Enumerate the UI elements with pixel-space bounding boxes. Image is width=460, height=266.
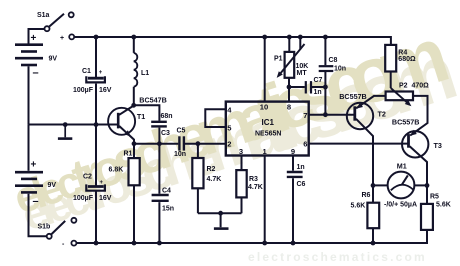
svg-text:-/0/+ 50µA: -/0/+ 50µA (384, 202, 417, 209)
svg-text:68n: 68n (161, 113, 173, 120)
junction C7 C8 (323, 85, 328, 90)
svg-text:T3: T3 (434, 141, 442, 150)
svg-text:electroschematics.com: electroschematics.com (248, 250, 427, 264)
svg-text:P1: P1 (274, 55, 283, 62)
switch S1b (47, 218, 77, 246)
meter M1 (388, 172, 415, 199)
svg-text:C1: C1 (82, 68, 91, 75)
wire collector to C3 (134, 105, 160, 120)
junction C6 bottom rail (291, 241, 296, 246)
capacitor C3 (151, 122, 167, 127)
svg-text:10K: 10K (296, 63, 309, 70)
junction R2 R3 ground (218, 211, 223, 216)
svg-text:MT: MT (297, 70, 308, 77)
ground under R2 R3 (214, 227, 229, 230)
wire pin10 (264, 37, 266, 102)
potentiometer P2 (386, 88, 413, 106)
wire pin6 to T3 base (309, 143, 408, 145)
svg-text:C3: C3 (161, 130, 170, 137)
junction P1 pin8 C7 (287, 85, 292, 90)
resistor R5 (421, 204, 433, 230)
svg-text:C5: C5 (177, 128, 186, 135)
junction C1 C2 mid rail (94, 122, 99, 127)
bottom rail (77, 230, 428, 243)
junction pin7 T2 base (323, 112, 328, 117)
svg-text:9V: 9V (48, 182, 57, 189)
svg-text:R2: R2 (207, 166, 216, 173)
resistor R6 (367, 203, 379, 229)
svg-text:BC557B: BC557B (392, 118, 420, 127)
switch S1a (45, 12, 75, 39)
wire R2-R3 tie bar (198, 213, 242, 227)
wire emitter row (134, 143, 226, 145)
svg-text:S1a: S1a (37, 12, 50, 19)
svg-text:C2: C2 (83, 174, 92, 181)
svg-text:100µF: 100µF (73, 195, 94, 202)
mid rail (battery junction to T1 base) (29, 124, 118, 126)
wire T1 collector diagonal (119, 106, 134, 115)
wire pin7 to T2 base (309, 114, 354, 116)
junction C2 bottom rail (94, 241, 99, 246)
svg-text:L1: L1 (141, 70, 149, 77)
battery B1 top lead (29, 29, 45, 44)
wire R3 leads (241, 156, 243, 214)
wire R4 bottom to P2 wiper (390, 72, 392, 89)
svg-text:1n: 1n (297, 164, 305, 171)
wire pin1 (264, 156, 266, 244)
svg-text:6.8K: 6.8K (109, 167, 124, 174)
resistor R3 (236, 170, 246, 197)
transistor T2 (347, 103, 373, 129)
svg-text:+: + (100, 180, 104, 186)
svg-text:100µF: 100µF (73, 87, 94, 94)
svg-text:9: 9 (291, 147, 295, 156)
battery B1 (15, 45, 43, 65)
wire T3 collector (410, 146, 427, 185)
wire P2 right to T3 emitter (410, 96, 427, 136)
resistor R1 (129, 158, 140, 185)
ground near battery (58, 125, 72, 139)
svg-text:R1: R1 (124, 151, 133, 158)
svg-text:M1: M1 (397, 162, 407, 171)
svg-text:10: 10 (260, 103, 268, 112)
junction P1 top rail (287, 35, 292, 40)
junction R1 bottom rail (132, 241, 137, 246)
wire pin4 pin5 loop (205, 109, 226, 127)
svg-text:9V: 9V (49, 56, 58, 63)
svg-text:S1b: S1b (38, 223, 51, 230)
svg-text:5.6K: 5.6K (436, 202, 451, 209)
svg-text:+: + (31, 159, 37, 170)
wire C8 leads (324, 37, 326, 115)
svg-text:+: + (31, 33, 37, 44)
wire pin8 / P1 bottom (288, 78, 290, 102)
svg-text:10n: 10n (174, 151, 186, 158)
junction T2 collector M1 R6 (371, 183, 376, 188)
junction T3 collector M1 R5 (425, 183, 430, 188)
wire R6 leads (372, 185, 374, 243)
junction L1 top rail (131, 35, 136, 40)
wire P1 top (288, 37, 290, 52)
svg-text:1n: 1n (314, 89, 322, 96)
junction P1 wiper top rail (298, 35, 303, 40)
svg-text:–: – (33, 67, 39, 79)
wire R2 leads (197, 144, 199, 214)
battery B2 top lead (28, 125, 30, 171)
wire R5 leads (426, 185, 428, 204)
svg-text:P2: P2 (399, 82, 408, 89)
wire meter right (415, 184, 428, 186)
battery B1 bottom lead (28, 66, 30, 124)
svg-text:C6: C6 (297, 181, 306, 188)
top rail (74, 37, 391, 45)
svg-text:3: 3 (239, 147, 243, 156)
wire T2 emitter to P2 left (356, 96, 385, 108)
junction ground mid rail (63, 122, 68, 127)
wire C3 bottom lead (158, 128, 160, 144)
capacitor C7 (306, 81, 311, 93)
transistor T1 (108, 108, 135, 137)
svg-text:BC547B: BC547B (139, 96, 167, 105)
svg-text:-: - (62, 241, 65, 248)
junction pin10 top rail (262, 35, 267, 40)
wire L1 column (133, 37, 135, 105)
junction C4 bottom rail (157, 241, 162, 246)
resistor R4 (385, 45, 396, 72)
svg-text:470Ω: 470Ω (412, 82, 430, 89)
wire C4 leads (158, 144, 160, 243)
svg-text:16V: 16V (99, 87, 112, 94)
wire P1 wiper stub (299, 37, 301, 50)
junction pin1 bottom rail (262, 241, 267, 246)
svg-text:16V: 16V (99, 195, 112, 202)
wire meter left (373, 184, 388, 186)
svg-text:T1: T1 (137, 112, 145, 121)
svg-text:5.6K: 5.6K (351, 203, 366, 210)
capacitor C5 (179, 136, 184, 150)
svg-text:R3: R3 (249, 176, 258, 183)
svg-text:C4: C4 (162, 188, 171, 195)
junction C1 top rail (94, 35, 99, 40)
junction C5 R2 pin2 (196, 141, 201, 146)
svg-text:4.7K: 4.7K (207, 176, 222, 183)
svg-text:2: 2 (227, 140, 231, 149)
capacitor C2 (electrolytic) (86, 184, 105, 190)
junction C3 C4 (157, 141, 162, 146)
wire P1 to C7 (289, 86, 325, 88)
svg-text:8: 8 (287, 103, 291, 112)
wire pin9 / C6 (292, 156, 294, 244)
battery B2 bottom lead (29, 194, 47, 237)
junction R6 bottom rail (371, 241, 376, 246)
battery B2 (15, 172, 43, 192)
capacitor C8 (319, 66, 334, 71)
svg-text:10n: 10n (334, 65, 346, 72)
IC1 NE565N box (226, 102, 309, 156)
svg-text:+: + (99, 70, 103, 76)
resistor R2 (192, 158, 203, 188)
capacitor C4 (152, 195, 169, 201)
wire T1 emitter (119, 126, 134, 144)
svg-text:NE565N: NE565N (255, 131, 281, 138)
junction T1 collector L1 C3 (131, 103, 136, 108)
junction T1 emitter R1 (132, 141, 137, 146)
svg-text:T2: T2 (378, 109, 386, 118)
wire R1 leads (133, 144, 135, 243)
svg-text:6: 6 (303, 140, 307, 149)
wire T2 collector down (356, 119, 373, 186)
capacitor C1 (electrolytic) (86, 76, 105, 82)
svg-text:IC1: IC1 (262, 118, 275, 127)
svg-text:R6: R6 (362, 192, 371, 199)
svg-text:+: + (60, 35, 64, 42)
svg-text:4.7K: 4.7K (248, 184, 263, 191)
capacitor C6 (287, 172, 303, 177)
junction C8 top rail (323, 35, 328, 40)
transistor T3 (402, 130, 428, 158)
wire C1 column (95, 37, 97, 243)
inductor L1 (134, 53, 138, 87)
svg-text:680Ω: 680Ω (398, 56, 416, 63)
svg-text:C7: C7 (314, 77, 323, 84)
svg-text:15n: 15n (162, 206, 174, 213)
svg-text:BC557B: BC557B (339, 92, 367, 101)
potentiometer P1 (277, 44, 305, 78)
svg-text:7: 7 (303, 111, 307, 120)
svg-text:–: – (33, 196, 39, 208)
svg-text:C8: C8 (329, 57, 338, 64)
svg-text:R5: R5 (430, 194, 439, 201)
